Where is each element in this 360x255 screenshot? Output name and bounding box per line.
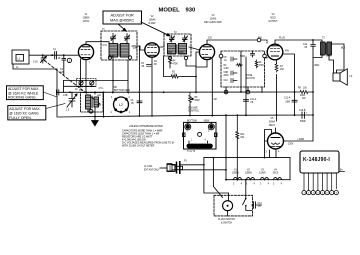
wire T1 primary bottom bbox=[112, 55, 114, 92]
capacitor C9B bbox=[231, 71, 237, 75]
capacitor C11A bbox=[244, 100, 249, 102]
heater string wire bbox=[226, 179, 290, 181]
svg-text:.05M: .05M bbox=[285, 102, 290, 104]
tube V3 det audio bbox=[199, 44, 214, 59]
svg-text:35W4: 35W4 bbox=[269, 122, 276, 124]
svg-text:ROCKING GANG.: ROCKING GANG. bbox=[8, 96, 37, 100]
svg-text:CONV: CONV bbox=[83, 21, 90, 23]
tube V1 converter bbox=[78, 44, 93, 59]
wire V2 cathode down bbox=[151, 57, 153, 115]
resistor R2 bbox=[164, 75, 183, 78]
wire T2 lead to R2 bbox=[163, 56, 165, 77]
trimmer dashed outline bbox=[77, 79, 97, 87]
tube V2 IF amp bbox=[145, 43, 159, 57]
wire V2 plate to T2 bbox=[159, 44, 164, 47]
filament V3 bbox=[260, 177, 269, 179]
IF transformer T1 bbox=[101, 31, 137, 60]
capacitor C8 bbox=[231, 57, 237, 61]
wire V5 plate top bbox=[275, 128, 277, 133]
svg-text:2000: 2000 bbox=[224, 75, 230, 77]
capacitor C10 bbox=[231, 79, 237, 83]
svg-text:UNLESS OTHERWISE NOTED: UNLESS OTHERWISE NOTED bbox=[129, 125, 163, 128]
ground bbox=[92, 121, 99, 126]
svg-text:10K: 10K bbox=[79, 90, 84, 92]
dashed gang coupling line bbox=[45, 61, 101, 105]
svg-text:12BA6: 12BA6 bbox=[149, 19, 157, 22]
volume control R3 bbox=[189, 92, 192, 104]
pointer arrow to T1 bbox=[118, 24, 125, 30]
svg-text:1000: 1000 bbox=[300, 95, 306, 97]
svg-text:C1B: C1B bbox=[63, 95, 68, 97]
wire vertical x226 bbox=[225, 115, 227, 180]
wire coupling box bottom stubs bbox=[226, 87, 262, 92]
svg-text:C7B: C7B bbox=[133, 48, 138, 50]
filament V1 bbox=[233, 177, 242, 179]
svg-text:50C5: 50C5 bbox=[270, 18, 276, 20]
svg-text:MAX.@455KC: MAX.@455KC bbox=[110, 19, 134, 23]
wire coupling box center bbox=[240, 51, 242, 92]
clock motor label bbox=[218, 219, 235, 225]
IF transformer T2 bbox=[164, 34, 191, 56]
svg-text:12BA6: 12BA6 bbox=[245, 171, 253, 174]
K-148J90-1 power unit bbox=[300, 151, 339, 173]
terminal circle 1 bbox=[263, 54, 267, 58]
svg-text:1M: 1M bbox=[214, 99, 217, 101]
svg-text:FULLY OPEN.: FULLY OPEN. bbox=[9, 116, 31, 120]
filament V4 bbox=[273, 177, 282, 179]
antenna plug detail bbox=[144, 166, 160, 172]
K unit pin leads bbox=[304, 173, 336, 190]
wire V5 right to RAW bbox=[284, 140, 314, 142]
svg-text:2.2M: 2.2M bbox=[172, 75, 177, 77]
oscillator variable capacitor C1B bbox=[69, 92, 75, 107]
resistor R6 vertical bbox=[255, 60, 257, 68]
notes block bbox=[122, 125, 174, 148]
svg-text:PLUS: PLUS bbox=[279, 38, 285, 40]
junction dots bottom bus bbox=[94, 114, 314, 117]
wire string riser to V5 heater bbox=[276, 150, 290, 180]
svg-text:BLK: BLK bbox=[341, 48, 346, 50]
short bus segment y86.3 bbox=[64, 85, 96, 87]
svg-text:470K: 470K bbox=[259, 65, 265, 67]
wire V3 cathode down bbox=[196, 60, 207, 67]
wire osc to cathode bus bbox=[94, 92, 96, 94]
T2 pin circles bbox=[168, 56, 171, 59]
wire V3 plate up and right bbox=[207, 40, 257, 44]
svg-text:930: 930 bbox=[186, 8, 197, 14]
junction dots trimmer bus bbox=[80, 80, 114, 87]
svg-text:CONTROL: CONTROL bbox=[188, 111, 200, 113]
wire V3 grid return bbox=[196, 52, 199, 92]
wire V4 plate to T3 bbox=[275, 40, 322, 44]
left callout box 1620 rocking bbox=[7, 86, 44, 100]
svg-text:45V: 45V bbox=[258, 38, 263, 40]
svg-text:.5M: .5M bbox=[113, 87, 117, 89]
wire osc box right drop bbox=[103, 92, 105, 116]
svg-text:ADJUST FOR: ADJUST FOR bbox=[111, 14, 134, 18]
svg-text:C9B: C9B bbox=[224, 72, 229, 74]
wire motor stem bbox=[227, 193, 229, 201]
capacitor C6 bbox=[137, 101, 142, 103]
wire T3 GRN to speaker bbox=[329, 55, 334, 73]
left callout box 1620 open bbox=[8, 106, 46, 120]
clock motor dashed box bbox=[214, 195, 253, 216]
wire bottom bus B- bbox=[58, 115, 313, 117]
wire T1 secondary to V2 grid bbox=[132, 46, 145, 50]
svg-text:50MF: 50MF bbox=[300, 121, 306, 123]
svg-text:12BD6: 12BD6 bbox=[83, 18, 91, 20]
coupling network dashed box bbox=[221, 51, 265, 87]
wire vertical x203 to plug loop bbox=[204, 158, 229, 193]
svg-text:IF AMP: IF AMP bbox=[148, 22, 156, 25]
svg-text:2.5∿: 2.5∿ bbox=[99, 87, 104, 90]
svg-text:L2A: L2A bbox=[97, 94, 102, 97]
svg-text:135V: 135V bbox=[288, 144, 294, 146]
capacitor C2 drop bbox=[62, 55, 66, 66]
socket bottom view T1 T2 bbox=[187, 121, 210, 123]
wire V1 cathode down bbox=[85, 60, 87, 93]
wire AC switch feed bbox=[213, 158, 222, 198]
capacitor C5 bypass bbox=[147, 65, 152, 67]
wire T2 secondary to V3 grid bbox=[189, 47, 200, 50]
capacitor C12 bbox=[311, 40, 316, 49]
svg-text:L1-COIL: L1-COIL bbox=[144, 166, 153, 168]
terminal circle 5 bbox=[246, 90, 250, 94]
wire osc ground stem bbox=[94, 107, 96, 121]
terminal circle 2 bbox=[67, 58, 71, 62]
svg-text:5000: 5000 bbox=[240, 56, 246, 58]
svg-text:VOLUME: VOLUME bbox=[188, 108, 198, 110]
wire RED filter vertical bbox=[312, 49, 314, 142]
terminal circle 8 bbox=[89, 109, 93, 113]
svg-text:MODEL: MODEL bbox=[159, 8, 181, 14]
svg-text:L2: L2 bbox=[119, 103, 123, 107]
svg-text:C7A: C7A bbox=[103, 44, 108, 47]
svg-text:22K: 22K bbox=[97, 105, 102, 107]
wire V4 screen line bbox=[283, 54, 295, 115]
svg-text:LS: LS bbox=[350, 76, 353, 78]
resistor R7 cathode bbox=[275, 64, 278, 73]
capacitor C13B bbox=[302, 112, 305, 118]
speaker LS bbox=[333, 73, 340, 81]
T2 trimmer capacitors bbox=[170, 36, 175, 43]
svg-text:DET-AUDIO AMP: DET-AUDIO AMP bbox=[204, 21, 222, 24]
svg-text:& SWITCH: & SWITCH bbox=[221, 223, 232, 225]
resistor R11 dropping bbox=[236, 115, 239, 178]
T1 pin circles bbox=[108, 56, 111, 59]
wire V3 diode line down bbox=[245, 57, 247, 115]
callout leader lines bbox=[43, 92, 57, 97]
svg-text:470K: 470K bbox=[173, 64, 179, 66]
wire T1 secondary bottom bbox=[127, 60, 129, 92]
svg-text:K-148J90-I: K-148J90-I bbox=[303, 157, 330, 163]
svg-text:RED: RED bbox=[315, 65, 320, 67]
wire V3 diode return bbox=[211, 59, 213, 116]
svg-text:45V: 45V bbox=[285, 51, 290, 53]
callout box adjust 455KC bbox=[103, 11, 142, 24]
svg-text:ACTION: ACTION bbox=[246, 77, 255, 80]
AC plug bbox=[167, 164, 172, 171]
svg-text:OUTPUT: OUTPUT bbox=[268, 21, 278, 23]
capacitor C2 series bbox=[55, 52, 57, 60]
wire T3 RED to filter bbox=[313, 55, 322, 58]
trimmer capacitor C1D bbox=[90, 81, 94, 85]
svg-text:BOTTOM VIEW: BOTTOM VIEW bbox=[114, 90, 131, 92]
resistor R4 bbox=[236, 64, 242, 67]
junction dots mid bus bbox=[56, 91, 295, 93]
svg-text:3.3M: 3.3M bbox=[224, 68, 229, 70]
wire T3 secondary BLK bbox=[332, 44, 345, 73]
svg-text:1250: 1250 bbox=[179, 52, 185, 54]
tube V5 rectifier bbox=[268, 133, 284, 149]
wire box to V4 grid bbox=[265, 57, 268, 59]
clock motor bbox=[223, 201, 233, 211]
wire T2 secondary bottom bbox=[186, 60, 196, 66]
wire T2 primary bottom / resistor R below T2 bbox=[169, 56, 171, 68]
svg-text:C11-A: C11-A bbox=[250, 98, 257, 101]
output transformer T3 bbox=[322, 38, 325, 40]
capacitor on mid bus bbox=[57, 90, 59, 95]
svg-text:1000: 1000 bbox=[167, 52, 173, 54]
svg-text:50C5: 50C5 bbox=[273, 172, 279, 174]
svg-text:C11-A: C11-A bbox=[284, 97, 291, 100]
terminal circle 6 bbox=[224, 90, 228, 94]
wire AVC line x139 bbox=[138, 46, 140, 116]
capacitor C13A bbox=[292, 100, 297, 102]
filament labels bbox=[232, 169, 283, 185]
trimmer bus y80.5 bbox=[64, 80, 129, 82]
svg-text:T1 & T2: T1 & T2 bbox=[187, 151, 196, 153]
wire antenna to V1 grid bbox=[29, 54, 78, 56]
title MODEL 930 bbox=[159, 8, 197, 14]
svg-text:RECT: RECT bbox=[269, 125, 276, 127]
svg-text:3-18: 3-18 bbox=[33, 62, 38, 64]
L2 coil bottom view bbox=[114, 90, 131, 92]
wire loop return bbox=[13, 64, 64, 117]
svg-text:CLOCK MOTOR: CLOCK MOTOR bbox=[218, 219, 235, 221]
trimmer capacitor C1C bbox=[79, 81, 83, 85]
svg-text:+ RAW: + RAW bbox=[297, 138, 305, 141]
variable capacitor C1A bbox=[41, 55, 45, 63]
capacitor C9A bbox=[251, 51, 255, 57]
svg-text:TONE: TONE bbox=[246, 75, 253, 77]
svg-text:12BD6: 12BD6 bbox=[232, 172, 240, 174]
dashed wire to V4 grid bbox=[261, 40, 267, 43]
wire V5 cathode pins down bbox=[266, 152, 281, 154]
switch inside box bbox=[246, 180, 252, 211]
V1 label bbox=[83, 14, 91, 23]
oscillator coil box bbox=[81, 93, 104, 113]
T1 trimmer capacitors bbox=[111, 34, 116, 44]
pointer arrow to T2 bbox=[141, 22, 168, 35]
tube V4 output bbox=[267, 44, 283, 60]
svg-text:500K: 500K bbox=[195, 100, 201, 102]
svg-text:12AV6: 12AV6 bbox=[210, 18, 217, 21]
svg-text:12AV6: 12AV6 bbox=[259, 171, 266, 174]
wire V5 pin bracket bbox=[265, 130, 272, 158]
wire V1 plate to T1 bbox=[86, 42, 109, 45]
K unit pin terminals bbox=[302, 191, 306, 195]
terminal circle 7 bbox=[257, 38, 261, 42]
rectifier label V5 bbox=[269, 118, 276, 127]
filament V2 bbox=[246, 177, 255, 179]
wire plug leads bbox=[181, 164, 204, 166]
resistor R8 filter bbox=[295, 90, 313, 93]
svg-text:C13-B: C13-B bbox=[299, 110, 306, 112]
capacitor C14 bbox=[252, 202, 262, 208]
svg-text:EXT.ANT.ONLY: EXT.ANT.ONLY bbox=[144, 169, 160, 172]
junction dot bbox=[312, 39, 314, 41]
wire V4 cathode down bbox=[276, 60, 278, 121]
wire AC rail bbox=[204, 157, 290, 159]
svg-text:WITH 20,000 O/VOLT METER: WITH 20,000 O/VOLT METER bbox=[122, 145, 155, 148]
wire V1 pin drop bbox=[64, 59, 81, 92]
svg-text:12V: 12V bbox=[208, 38, 213, 40]
wire osc coil bottom bbox=[88, 109, 95, 112]
terminal circle 2 bbox=[219, 54, 223, 58]
loop antenna L1 bbox=[12, 50, 29, 64]
wire mid bus AVC bbox=[57, 91, 295, 93]
